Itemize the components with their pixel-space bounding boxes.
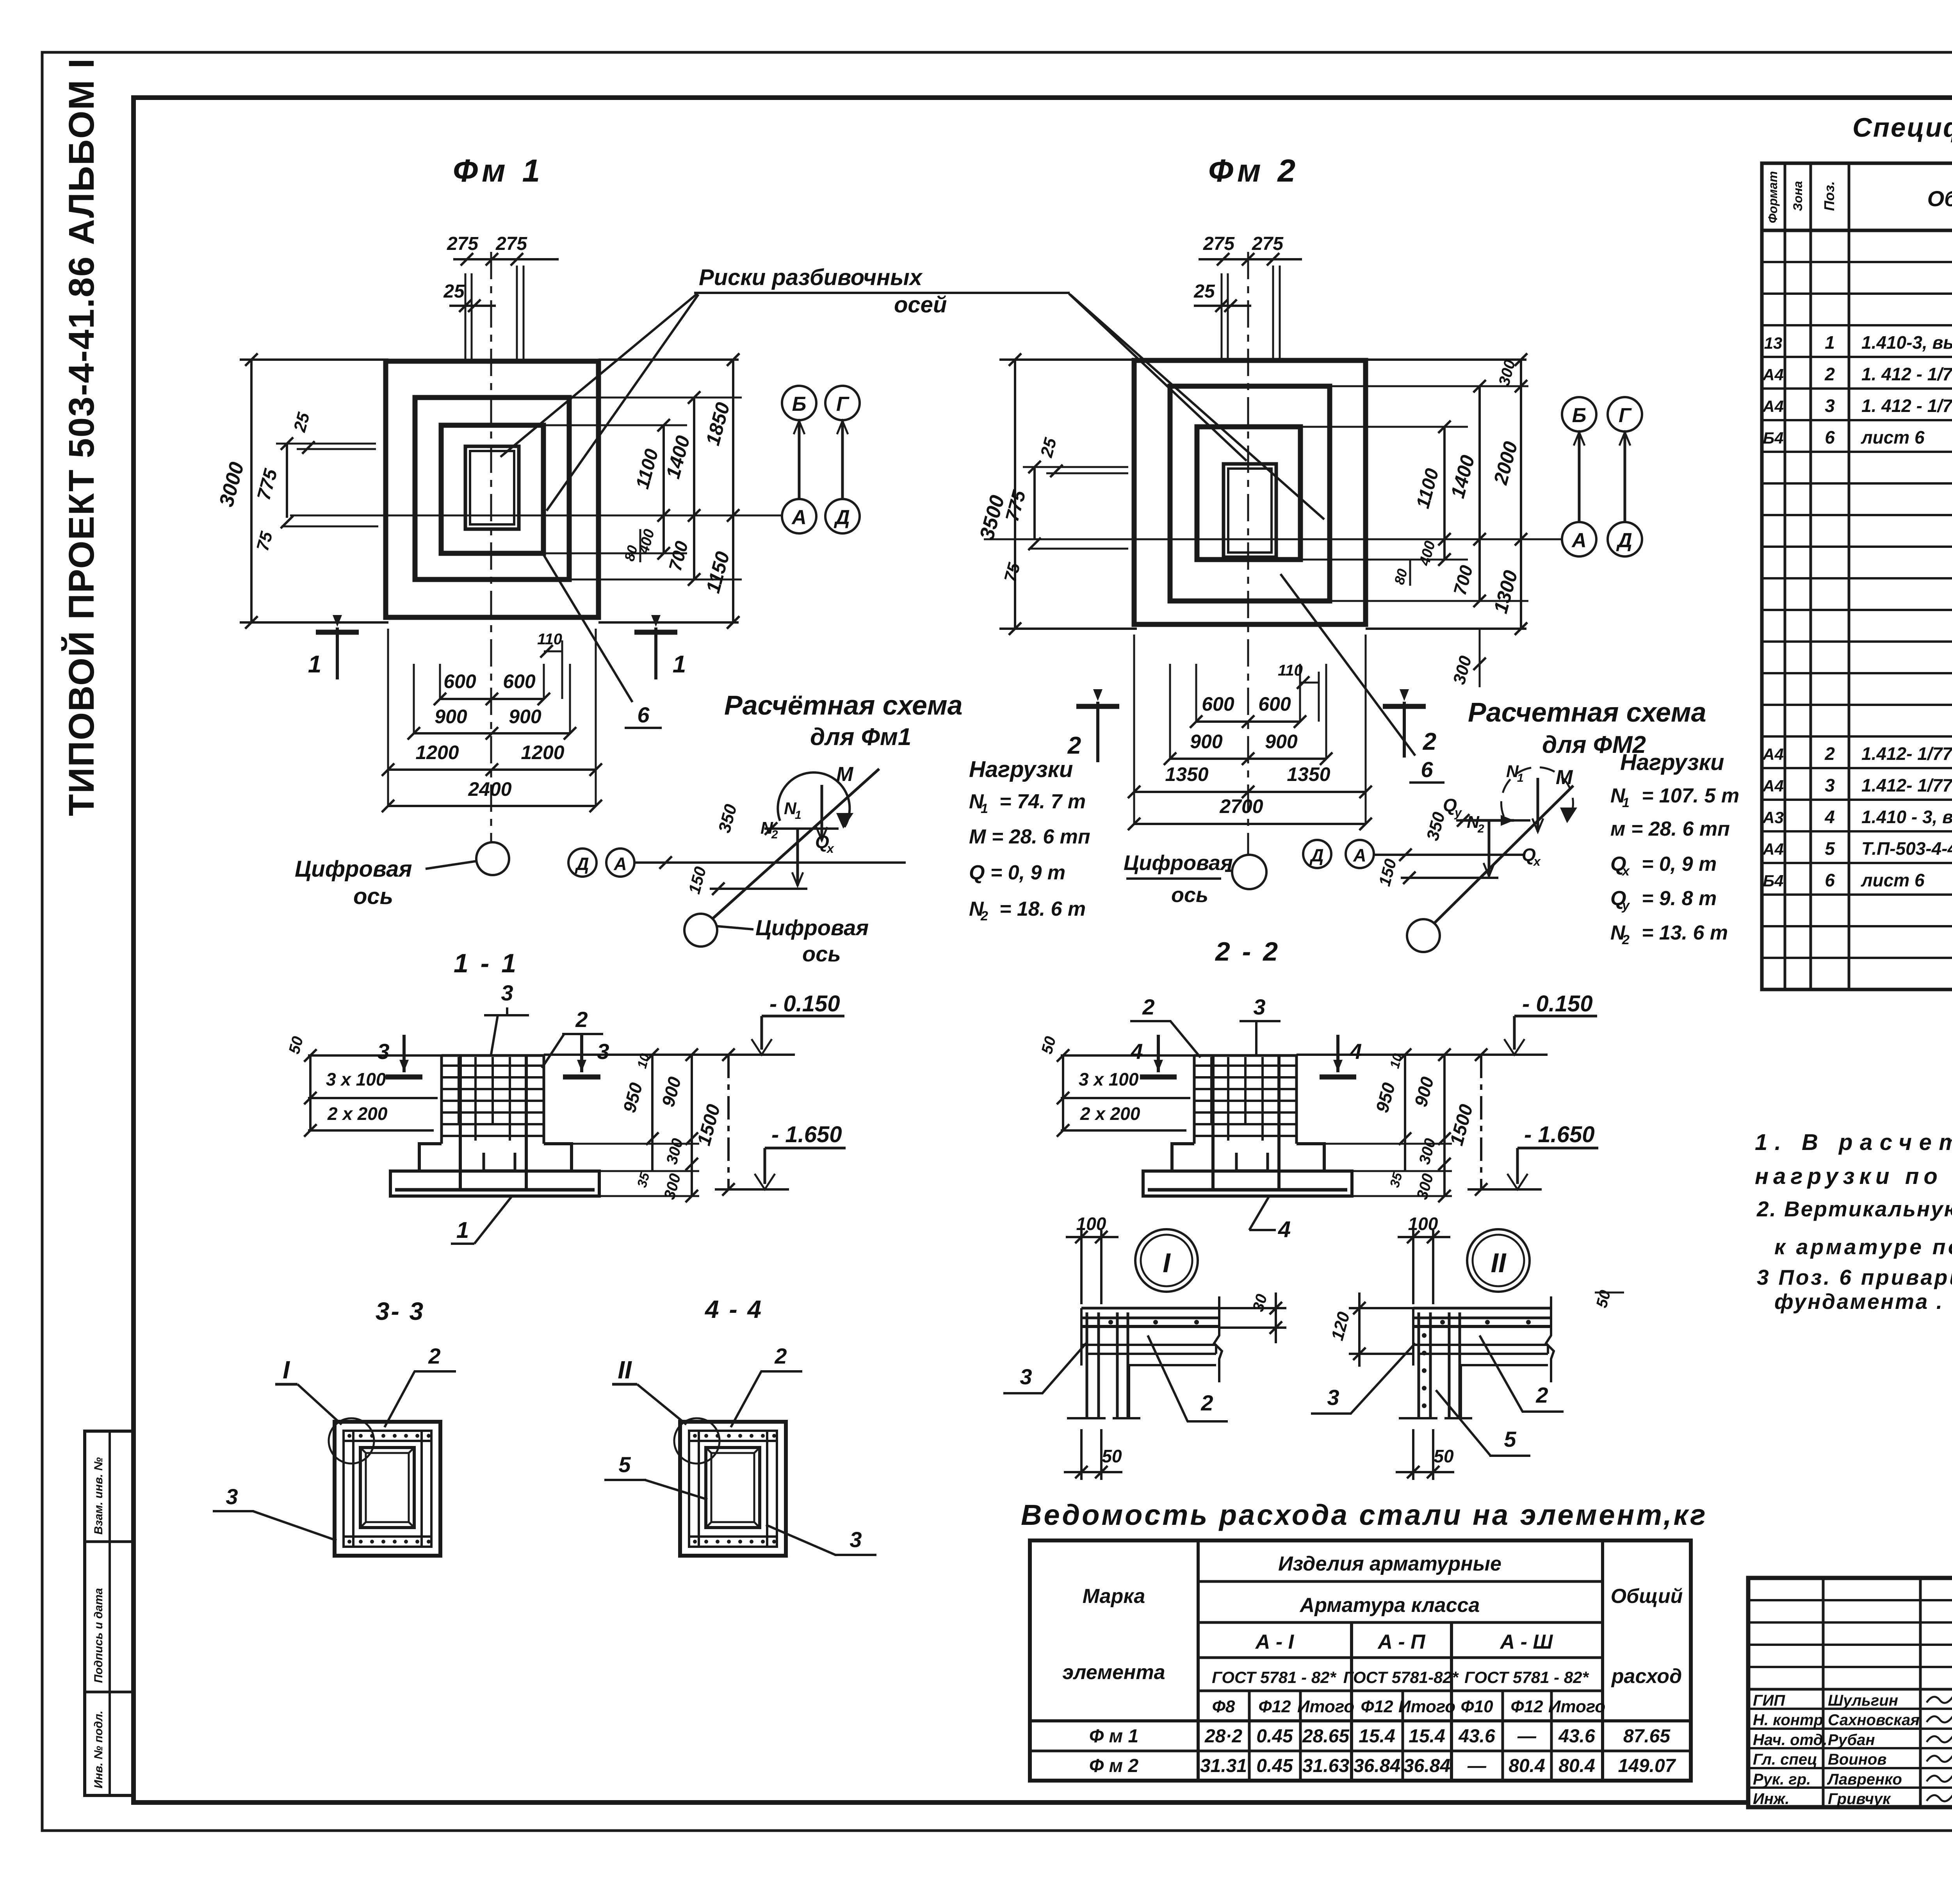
- svg-text:Ведомость расхода стали н: Ведомость расхода стали на элемент,кг: [1021, 1499, 1708, 1531]
- detail I slab break line: [1214, 1296, 1222, 1382]
- scheme ФМ1 parallelogram top edge: [764, 827, 839, 830]
- svg-text:Лавренко: Лавренко: [1827, 1771, 1902, 1788]
- svg-text:Риски разбивочных: Риски разбивочных: [699, 265, 923, 290]
- dim ФМ1 bottom chains: [387, 629, 389, 806]
- axis arrow А to Б: [798, 421, 801, 498]
- steel table grid: [1030, 1540, 1691, 1781]
- dim ФМ2 2700: [1134, 823, 1366, 825]
- scheme ФМ1 lower axis circle: [684, 914, 717, 947]
- svg-text:3: 3: [501, 981, 513, 1005]
- svg-text:275: 275: [447, 234, 479, 254]
- svg-text:фундамента .: фундамента .: [1774, 1289, 1942, 1314]
- section 4 - 4 mesh lines: [689, 1440, 777, 1442]
- detail I rebar dots: [1108, 1320, 1113, 1325]
- svg-text:II: II: [618, 1356, 632, 1384]
- dim ФМ2 right chains: [1366, 358, 1526, 361]
- detail I corner step: [1215, 1345, 1217, 1354]
- svg-text:Сахновская: Сахновская: [1828, 1711, 1920, 1729]
- scheme ФМ1 force N2 arrow: [796, 830, 799, 886]
- svg-text:1: 1: [981, 801, 988, 816]
- svg-text:2: 2: [1824, 743, 1835, 764]
- svg-text:6: 6: [637, 702, 650, 727]
- section 3- 3 inner contour: [344, 1431, 431, 1547]
- svg-text:149.07: 149.07: [1618, 1756, 1676, 1776]
- leader poz 6 (ФМ1): [543, 554, 632, 702]
- svg-text:Н. контр: Н. контр: [1753, 1711, 1823, 1729]
- detail II vertical bars: [1418, 1312, 1420, 1418]
- section 2-2 leader 4: [1249, 1197, 1269, 1230]
- svg-text:36.84: 36.84: [1403, 1756, 1450, 1776]
- dim ФМ1 1400/700 chain: [693, 398, 695, 579]
- svg-text:1. 412 - 1/77, вып.3: 1. 412 - 1/77, вып.3: [1861, 396, 1952, 416]
- svg-text:900: 900: [509, 706, 541, 727]
- svg-text:110: 110: [1278, 662, 1303, 679]
- detail II circle: [1467, 1229, 1530, 1292]
- svg-text:—: —: [1517, 1726, 1537, 1747]
- riska leader to ФМ1 middle step: [547, 294, 698, 511]
- svg-text:2: 2: [1824, 364, 1835, 384]
- svg-text:275: 275: [1203, 234, 1235, 254]
- svg-text:80.4: 80.4: [1509, 1756, 1545, 1776]
- svg-text:1: 1: [1622, 795, 1630, 810]
- svg-text:900: 900: [1265, 731, 1298, 752]
- svg-text:Д: Д: [1309, 845, 1323, 865]
- svg-text:Д: Д: [574, 854, 589, 874]
- svg-text:1: 1: [795, 809, 801, 822]
- dim ФМ2 left 25: [1023, 466, 1128, 468]
- plan ФМ2 column outline: [1224, 464, 1276, 557]
- dim ФМ1 left 75: [281, 526, 378, 528]
- svg-text:осей: осей: [894, 292, 947, 317]
- svg-text:- 0.150: - 0.150: [1522, 991, 1593, 1016]
- svg-text:13: 13: [1764, 334, 1783, 352]
- svg-text:= 74. 7 т: = 74. 7 т: [999, 790, 1086, 813]
- scheme ФМ2 parallelogram top edge: [1456, 819, 1530, 822]
- svg-text:Ф8: Ф8: [1212, 1697, 1235, 1716]
- svg-text:А4: А4: [1762, 365, 1784, 384]
- detail II dim 100 top: [1412, 1230, 1414, 1304]
- detail I dim 50 bottom: [1080, 1429, 1083, 1480]
- section 4-4 detail circle II: [674, 1418, 720, 1464]
- axis arrow Д to Г: [841, 421, 844, 498]
- svg-text:43.6: 43.6: [1458, 1726, 1495, 1747]
- svg-text:А: А: [1571, 529, 1587, 552]
- plan ФМ2 riska projection lines top: [1221, 273, 1223, 358]
- svg-text:4: 4: [1824, 807, 1835, 827]
- dim ФМ2 300/2000/1300 chain: [1520, 360, 1522, 629]
- section 1-1 cut mark 3 left: [403, 1035, 406, 1072]
- svg-text:36.84: 36.84: [1354, 1756, 1400, 1776]
- svg-text:15.4: 15.4: [1359, 1726, 1395, 1747]
- svg-text:4: 4: [1278, 1217, 1291, 1242]
- section 3- 3 rebar dots: [347, 1434, 351, 1438]
- section 2-2 right dim 1500: [1480, 1055, 1482, 1189]
- svg-text:y: y: [1621, 898, 1630, 913]
- svg-text:3: 3: [1020, 1364, 1032, 1389]
- section 4 - 4 column void: [706, 1448, 760, 1528]
- svg-text:6: 6: [1421, 757, 1433, 782]
- section 2-2 right dim chain 900/300/300: [1443, 1055, 1446, 1196]
- section 2-2 pocket under column: [1236, 1153, 1268, 1171]
- detail I bottom break ticks: [1067, 1417, 1106, 1419]
- svg-text:I: I: [1163, 1248, 1171, 1278]
- section 2-2 main vertical bars: [1211, 1055, 1215, 1191]
- svg-text:6: 6: [1825, 427, 1835, 447]
- svg-text:Фм 1: Фм 1: [453, 153, 544, 189]
- section 1-1 pocket under column: [484, 1153, 515, 1171]
- plan ФМ1 vertical centerline: [490, 252, 492, 842]
- svg-text:к арматуре подошвы в местах: к арматуре подошвы в местах их пересечен…: [1774, 1235, 1952, 1259]
- dim ФМ1 left 3000: [240, 358, 388, 361]
- svg-text:2: 2: [1142, 995, 1154, 1019]
- section mark 2 right: [1403, 702, 1406, 758]
- section 3- 3 column void: [360, 1448, 414, 1528]
- svg-text:ТИПОВОЙ ПРОЕКТ 503-4-41.86 А: ТИПОВОЙ ПРОЕКТ 503-4-41.86 АЛЬБОМ I: [61, 58, 102, 816]
- svg-text:ГОСТ 5781 - 82*: ГОСТ 5781 - 82*: [1212, 1668, 1336, 1687]
- svg-text:Ф м 2: Ф м 2: [1089, 1756, 1139, 1776]
- svg-text:0.45: 0.45: [1256, 1756, 1293, 1776]
- section 1-1 leader 1: [474, 1197, 511, 1244]
- dim ФМ1 top 25: [449, 305, 496, 307]
- svg-text:2: 2: [1477, 822, 1484, 835]
- svg-text:М: М: [836, 763, 854, 786]
- svg-text:2: 2: [1423, 728, 1436, 755]
- svg-text:= 13. 6 т: = 13. 6 т: [1642, 922, 1728, 944]
- svg-text:3 х 100: 3 х 100: [1079, 1069, 1139, 1089]
- scheme ФМ2 axis circles Д А: [1303, 840, 1331, 868]
- dim ФМ2 1400/700 chain: [1478, 386, 1481, 601]
- svg-text:2: 2: [774, 1344, 787, 1368]
- svg-text:110: 110: [537, 631, 562, 648]
- svg-text:15.4: 15.4: [1409, 1726, 1445, 1747]
- svg-text:x: x: [1533, 854, 1541, 868]
- svg-text:600: 600: [1202, 693, 1234, 715]
- scheme ФМ2 force Qy arrow: [1460, 819, 1514, 822]
- svg-text:А: А: [791, 506, 807, 529]
- svg-text:Б4: Б4: [1763, 429, 1783, 447]
- scheme ФМ2 moment arc M: [1501, 767, 1573, 821]
- svg-text:Рук. гр.: Рук. гр.: [1753, 1771, 1811, 1788]
- axis circle Д (ФМ2): [1608, 522, 1642, 556]
- svg-text:А4: А4: [1762, 777, 1784, 795]
- dim ФМ2 600+600: [1196, 720, 1300, 723]
- section 2-2 upper step block: [1172, 1144, 1194, 1171]
- axis arrow Д to Г (ФМ2): [1624, 432, 1626, 521]
- svg-text:Взам. инв. №: Взам. инв. №: [92, 1457, 105, 1535]
- section 3- 3 mesh lines: [344, 1440, 431, 1442]
- dim ФМ1 right chains: [598, 358, 739, 361]
- svg-text:Нач. отд.: Нач. отд.: [1753, 1731, 1827, 1749]
- dim ФМ1 2400: [388, 805, 596, 807]
- svg-text:28·2: 28·2: [1204, 1726, 1242, 1747]
- scheme ФМ1 force N1 arrow: [821, 785, 823, 840]
- svg-text:Расчётная схема: Расчётная схема: [724, 690, 963, 720]
- plan ФМ2 middle step contour: [1170, 386, 1330, 601]
- svg-text:Марка: Марка: [1083, 1585, 1145, 1608]
- svg-text:275: 275: [1252, 234, 1284, 254]
- svg-text:25: 25: [443, 281, 465, 302]
- svg-text:4 - 4: 4 - 4: [704, 1295, 763, 1323]
- svg-text:1.410 - 3, вып.1: 1.410 - 3, вып.1: [1861, 807, 1952, 827]
- svg-text:А4: А4: [1762, 397, 1784, 415]
- svg-text:50: 50: [1102, 1446, 1122, 1466]
- detail I vertical bars: [1086, 1312, 1088, 1418]
- svg-text:Итого: Итого: [1548, 1697, 1605, 1716]
- svg-text:5: 5: [618, 1452, 631, 1477]
- svg-text:2: 2: [428, 1344, 440, 1368]
- svg-text:1.412- 1/77, вып.3: 1.412- 1/77, вып.3: [1861, 775, 1952, 795]
- svg-text:2400: 2400: [468, 778, 511, 800]
- svg-text:- 1.650: - 1.650: [771, 1122, 842, 1147]
- plan ФМ2 upper step contour: [1197, 427, 1300, 560]
- svg-text:80.4: 80.4: [1558, 1756, 1595, 1776]
- svg-text:Нагрузки: Нагрузки: [969, 757, 1073, 782]
- svg-text:Инж.: Инж.: [1753, 1790, 1790, 1808]
- plan ФМ2 outer contour: [1134, 360, 1366, 624]
- detail I slab lines: [1081, 1307, 1219, 1310]
- svg-text:2 х 200: 2 х 200: [1080, 1104, 1140, 1124]
- dim ФМ1 600+600: [440, 698, 544, 700]
- section 2-2 cut mark 4 right: [1336, 1035, 1339, 1072]
- svg-text:2: 2: [1067, 732, 1081, 759]
- svg-text:2: 2: [1535, 1383, 1548, 1407]
- svg-text:4: 4: [1349, 1039, 1362, 1064]
- svg-text:x: x: [1621, 864, 1630, 879]
- svg-text:Арматура класса: Арматура класса: [1299, 1594, 1480, 1617]
- svg-text:лист 6: лист 6: [1861, 427, 1925, 447]
- svg-text:2: 2: [1622, 932, 1630, 947]
- dim ФМ1 left 775: [286, 444, 288, 518]
- svg-text:Обозначение: Обозначение: [1927, 186, 1952, 211]
- detail II slab break line: [1546, 1296, 1554, 1382]
- svg-text:100: 100: [1408, 1214, 1438, 1234]
- svg-text:1. 412 - 1/77, вып.3: 1. 412 - 1/77, вып.3: [1861, 364, 1952, 384]
- title block signature grid: [1822, 1578, 1825, 1807]
- section 4 - 4 inner contour: [689, 1431, 777, 1547]
- svg-text:А: А: [613, 854, 627, 874]
- svg-text:1.412- 1/77, вып.3: 1.412- 1/77, вып.3: [1861, 743, 1952, 764]
- spec table grid: [1762, 163, 1952, 989]
- svg-text:Нагрузки: Нагрузки: [1620, 750, 1724, 775]
- svg-text:= 18. 6 т: = 18. 6 т: [999, 898, 1086, 920]
- svg-text:2 - 2: 2 - 2: [1215, 937, 1280, 966]
- svg-text:6: 6: [1825, 870, 1835, 890]
- svg-text:Ф12: Ф12: [1510, 1697, 1543, 1716]
- svg-text:50: 50: [1434, 1446, 1454, 1466]
- plan ФМ1 upper step contour: [441, 425, 543, 553]
- axis circle А (ФМ1): [782, 499, 816, 533]
- svg-text:Ф12: Ф12: [1361, 1697, 1393, 1716]
- dim ФМ2 top 25: [1194, 305, 1251, 307]
- svg-text:= 9. 8 т: = 9. 8 т: [1642, 887, 1717, 910]
- svg-text:Д: Д: [1616, 529, 1632, 552]
- svg-text:31.63: 31.63: [1302, 1756, 1349, 1776]
- plan ФМ1 column outline: [465, 446, 519, 529]
- svg-text:Итого: Итого: [1398, 1697, 1455, 1716]
- svg-text:Общий: Общий: [1611, 1585, 1683, 1608]
- section 4 - 4 chamfer ticks: [706, 1448, 711, 1453]
- svg-text:28.65: 28.65: [1302, 1726, 1350, 1747]
- riska leader to ФМ2 column: [1069, 294, 1247, 461]
- section 1-1 right dim chain 950: [651, 1055, 654, 1171]
- svg-text:I: I: [283, 1356, 290, 1384]
- svg-text:Т.П-503-4-41.86: Т.П-503-4-41.86: [1861, 838, 1952, 859]
- svg-text:А4: А4: [1762, 840, 1784, 858]
- detail II bottom break ticks: [1399, 1417, 1437, 1419]
- dim ФМ1 1850/1150 chain: [732, 360, 734, 622]
- section 1-1 right dim 1500: [727, 1055, 730, 1189]
- svg-text:ГОСТ 5781 - 82*: ГОСТ 5781 - 82*: [1464, 1668, 1589, 1687]
- digital axis circle (ФМ1 plan): [476, 842, 509, 875]
- plan ФМ1 outer contour: [386, 361, 598, 617]
- section 3-3 detail circle I: [329, 1418, 374, 1464]
- svg-text:Зона: Зона: [1791, 181, 1805, 211]
- scheme ФМ1 horizontal axis: [634, 861, 906, 864]
- scheme ФМ2 horizontal axis: [1374, 854, 1525, 856]
- section 4 - 4 rebar dots: [693, 1434, 697, 1438]
- svg-text:Изделия арматурные: Изделия арматурные: [1278, 1553, 1501, 1575]
- svg-text:3- 3: 3- 3: [376, 1297, 425, 1325]
- svg-text:II: II: [1491, 1248, 1507, 1278]
- svg-text:ось: ось: [802, 941, 841, 966]
- svg-text:А: А: [1353, 845, 1366, 865]
- section 2-2 column mesh: [1193, 1055, 1196, 1144]
- svg-text:1: 1: [673, 651, 686, 678]
- svg-text:Б4: Б4: [1763, 872, 1783, 890]
- svg-text:1200: 1200: [521, 742, 564, 763]
- riska leader to ФМ2 middle step: [1070, 294, 1324, 519]
- svg-text:Инв. № подл.: Инв. № подл.: [92, 1711, 105, 1788]
- svg-text:25: 25: [1193, 281, 1215, 302]
- axis circle Б (ФМ2): [1562, 397, 1596, 431]
- scheme ФМ1 axis circles Д А: [568, 849, 597, 877]
- axis circle Г: [825, 386, 860, 420]
- svg-text:расход: расход: [1611, 1665, 1682, 1688]
- svg-text:600: 600: [443, 670, 476, 692]
- svg-text:Итого: Итого: [1297, 1697, 1354, 1716]
- section mark 1 left: [336, 628, 339, 679]
- axis arrow А to Б (ФМ2): [1578, 432, 1581, 521]
- section 2-2 left dim box 3x100 2x200: [1061, 1054, 1194, 1057]
- svg-text:900: 900: [1190, 731, 1223, 752]
- svg-text:ГОСТ 5781-82*: ГОСТ 5781-82*: [1343, 1668, 1459, 1687]
- svg-text:- 1.650: - 1.650: [1524, 1122, 1595, 1147]
- svg-text:0.45: 0.45: [1256, 1726, 1293, 1747]
- svg-text:Подпись и дата: Подпись и дата: [92, 1588, 105, 1683]
- svg-text:275: 275: [495, 234, 527, 254]
- svg-text:3: 3: [597, 1039, 609, 1064]
- svg-text:ось: ось: [353, 884, 393, 909]
- svg-text:ГИП: ГИП: [1753, 1692, 1785, 1709]
- dim ФМ2 left 3500: [999, 358, 1137, 361]
- svg-text:1 - 1: 1 - 1: [454, 948, 518, 978]
- svg-text:Цифровая: Цифровая: [1124, 851, 1233, 875]
- dim ФМ1 900+900: [414, 732, 570, 735]
- svg-text:Цифровая: Цифровая: [295, 856, 412, 882]
- svg-text:3: 3: [226, 1484, 238, 1509]
- scheme ФМ1 moment arc M: [778, 772, 850, 827]
- svg-text:Расчетная схема: Расчетная схема: [1468, 697, 1706, 727]
- section 3- 3 outer contour: [335, 1422, 440, 1556]
- svg-text:Поз.: Поз.: [1821, 181, 1837, 211]
- svg-text:лист 6: лист 6: [1861, 870, 1925, 890]
- svg-text:Воинов: Воинов: [1828, 1751, 1887, 1768]
- scheme ФМ2 parallelogram bottom edge: [1401, 877, 1498, 879]
- digital axis circle (ФМ2 plan): [1232, 855, 1266, 889]
- section mark 1 right: [654, 628, 657, 679]
- svg-text:элемента: элемента: [1062, 1661, 1165, 1684]
- svg-text:31.31: 31.31: [1200, 1756, 1247, 1776]
- scheme ФМ1 inclined axis: [713, 769, 879, 918]
- svg-text:А - П: А - П: [1377, 1631, 1426, 1653]
- detail II rebar dots: [1440, 1320, 1445, 1325]
- axis circle А (ФМ2): [1562, 522, 1596, 556]
- svg-text:М: М: [1556, 766, 1573, 789]
- section 4 - 4 outer contour: [680, 1422, 786, 1556]
- section mark 2 left: [1096, 702, 1099, 762]
- svg-text:2: 2: [575, 1007, 588, 1032]
- svg-text:Ф м 1: Ф м 1: [1089, 1726, 1138, 1747]
- plan ФМ1 horizontal centerline: [290, 515, 782, 517]
- svg-text:1350: 1350: [1165, 763, 1208, 785]
- svg-text:А - І: А - І: [1255, 1631, 1295, 1653]
- scheme ФМ2 force N2 arrow: [1488, 822, 1491, 876]
- dim ФМ2 bottom chains: [1133, 635, 1135, 824]
- section 1-1 right dim chain 900/300/300: [691, 1055, 693, 1196]
- detail II dim 50 bottom: [1412, 1429, 1414, 1480]
- svg-text:100: 100: [1076, 1214, 1106, 1234]
- svg-text:600: 600: [1258, 693, 1291, 715]
- svg-text:А3: А3: [1762, 808, 1784, 827]
- svg-text:3: 3: [1327, 1385, 1339, 1410]
- svg-text:Q = 0, 9 т: Q = 0, 9 т: [969, 861, 1065, 884]
- detail II slab lines: [1413, 1307, 1551, 1310]
- axis circle Б: [782, 386, 816, 420]
- leader poz 6 (ФМ2): [1281, 574, 1415, 756]
- svg-text:87.65: 87.65: [1623, 1726, 1671, 1747]
- svg-text:Г: Г: [1619, 404, 1632, 427]
- svg-text:М = 28. 6 тп: М = 28. 6 тп: [969, 825, 1090, 848]
- svg-text:Д: Д: [834, 506, 850, 529]
- plan ФМ2 vertical centerline: [1247, 252, 1249, 855]
- svg-text:Гривчук: Гривчук: [1828, 1790, 1891, 1808]
- section 2-2 right dim chain 950: [1404, 1055, 1406, 1171]
- detail I circle: [1135, 1229, 1198, 1292]
- svg-text:Гл. спец: Гл. спец: [1753, 1751, 1817, 1768]
- svg-text:x: x: [826, 841, 834, 856]
- svg-text:2: 2: [771, 828, 778, 841]
- svg-text:3: 3: [1253, 995, 1265, 1019]
- svg-text:= 107. 5 т: = 107. 5 т: [1642, 784, 1739, 807]
- section 3- 3 chamfer ticks: [360, 1448, 366, 1453]
- section 1-1 column mesh: [440, 1055, 443, 1144]
- section 1-1 left dim box 3x100 2x200: [308, 1054, 442, 1057]
- svg-text:2: 2: [980, 909, 988, 923]
- dim ФМ1 1200+1200: [388, 768, 596, 771]
- svg-text:3: 3: [850, 1527, 862, 1552]
- svg-text:= 0, 9 т: = 0, 9 т: [1642, 853, 1717, 875]
- section 2-2 right extension lines: [1324, 1143, 1452, 1145]
- dim ФМ2 900+900: [1170, 758, 1326, 760]
- axis circle Г (ФМ2): [1608, 397, 1642, 431]
- section 1-1 upper step block: [419, 1144, 442, 1171]
- main title block frame: [1748, 1578, 1952, 1807]
- svg-text:Шульгин: Шульгин: [1828, 1692, 1898, 1709]
- section 1-1 cut mark 3 right: [580, 1035, 583, 1072]
- svg-text:м = 28. 6 тп: м = 28. 6 тп: [1610, 818, 1730, 840]
- scheme ФМ1 parallelogram bottom edge: [710, 888, 807, 890]
- plan ФМ1 riska projection lines top: [465, 273, 467, 359]
